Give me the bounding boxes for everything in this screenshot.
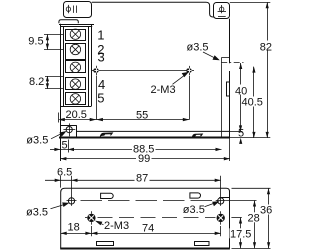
terminal cell 1 — [66, 30, 86, 41]
wire left case edge — [60, 24, 62, 161]
svg-text:9.5: 9.5 — [28, 36, 43, 48]
svg-text:55: 55 — [136, 109, 148, 121]
hatch mark right — [192, 134, 204, 138]
wire flange bottom thick — [59, 137, 230, 139]
terminal screw 4 — [70, 79, 80, 89]
svg-text:ø3.5: ø3.5 — [183, 204, 205, 216]
dimension 6.5 and 87 line — [45, 176, 221, 197]
dimension 18 and 74 line — [61, 226, 221, 236]
dimension 5 left — [68, 140, 70, 153]
svg-text:87: 87 — [136, 173, 148, 185]
wire case bottom edge extension — [230, 130, 243, 132]
svg-text:8.2: 8.2 — [29, 76, 44, 88]
terminal screw 5 — [70, 94, 80, 104]
louver slot A — [101, 193, 114, 198]
dimension 8.2 — [45, 76, 63, 89]
wire block top inner — [60, 26, 92, 28]
bottom slot left — [97, 242, 114, 246]
hole H1 (M3 left) — [92, 66, 101, 75]
svg-text:ø3.5: ø3.5 — [26, 134, 48, 146]
mounting tab bottom-left — [60, 125, 76, 138]
svg-text:82: 82 — [260, 41, 272, 53]
side hole bracket right wall — [221, 58, 230, 64]
svg-text:20.5: 20.5 — [66, 109, 87, 121]
wire top-left lip — [59, 20, 78, 24]
svg-text:5: 5 — [238, 128, 244, 140]
dimension 28 — [254, 201, 256, 249]
dimension 88.5 — [50, 148, 222, 150]
terminal cell 4 — [66, 78, 86, 90]
hole M2 (2-M3 right) — [217, 211, 225, 224]
hole H4 (side left) — [67, 196, 77, 206]
hole H2 (M3 right) — [185, 66, 194, 75]
dimension 40.5 — [253, 67, 255, 138]
svg-text:28: 28 — [248, 212, 260, 224]
wire case bottom edge — [77, 130, 230, 132]
bottom slot right — [195, 242, 210, 246]
svg-text:5: 5 — [97, 90, 104, 105]
svg-text:17.5: 17.5 — [230, 228, 251, 240]
wire case right edge lower — [229, 71, 231, 138]
svg-text:74: 74 — [142, 222, 154, 234]
terminal block body — [60, 24, 91, 106]
terminal cell 2 — [66, 44, 86, 60]
svg-text:40.5: 40.5 — [242, 97, 263, 109]
wire top edge with step — [92, 2, 214, 17]
wire flange bottom extension — [230, 137, 270, 139]
svg-text:99: 99 — [138, 153, 150, 165]
wire cover lip — [219, 197, 229, 199]
earth symbol in B2 — [218, 5, 226, 17]
dimension 9.5 — [44, 34, 63, 49]
wire bottom edge thick — [60, 248, 230, 250]
svg-text:40: 40 — [235, 85, 247, 97]
svg-text:2-M3: 2-M3 — [151, 84, 176, 96]
wire dash centerline side holes — [81, 200, 216, 202]
wire dash centerline M1-M2 — [98, 217, 216, 219]
terminal screw 2 — [70, 44, 80, 54]
wire case right edge upper — [229, 19, 231, 64]
hatch mark left — [100, 132, 114, 137]
svg-text:ø3.5: ø3.5 — [26, 207, 48, 219]
inlet box B1 — [64, 2, 92, 18]
side slot right wall — [227, 82, 230, 96]
terminal cell 5 — [66, 93, 86, 105]
svg-text:36: 36 — [260, 205, 272, 217]
dimension 99 — [60, 158, 229, 160]
wire inner right line — [221, 63, 223, 137]
svg-text:1: 1 — [97, 27, 104, 42]
dimension 20.5 and 55 line — [60, 76, 189, 120]
dimension 82 — [267, 2, 269, 138]
wire 82 extension line top — [230, 2, 270, 4]
hole H5 (side right) — [216, 196, 226, 206]
svg-text:3: 3 — [98, 50, 105, 65]
dimension 36 — [268, 188, 270, 248]
right side extension lines — [226, 188, 271, 248]
svg-text:ø3.5: ø3.5 — [187, 42, 209, 54]
hole H3 tab — [63, 123, 75, 136]
terminal cell 3 — [66, 61, 86, 73]
dimension 40 — [240, 63, 242, 131]
hole M1 (2-M3 left) — [85, 211, 96, 224]
svg-text:2-M3: 2-M3 — [104, 220, 129, 232]
dimension 5 right — [239, 138, 242, 144]
terminal screw 1 — [70, 29, 80, 39]
node hole H1 center line — [101, 70, 185, 72]
louver slot B — [190, 193, 201, 198]
FG box B2 — [214, 3, 230, 19]
svg-text:6.5: 6.5 — [57, 167, 72, 179]
wire block top outer — [59, 24, 94, 26]
terminal screw 3 — [70, 62, 80, 72]
wire dash centerline side hole — [221, 62, 243, 64]
wire right edge dim extension — [229, 138, 231, 161]
symbol phi-bars in B1 — [66, 5, 76, 13]
svg-text:5: 5 — [62, 140, 68, 152]
case outline side view — [61, 188, 230, 248]
svg-text:18: 18 — [68, 222, 80, 234]
dimension 17.5 — [240, 218, 242, 249]
